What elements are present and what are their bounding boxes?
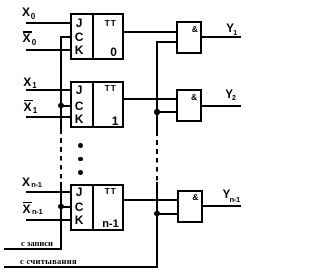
pin C of TTn-1 xyxy=(75,201,84,213)
wire write vertical middle (dashed) xyxy=(60,134,62,182)
ellipsis dot 1 xyxy=(78,143,83,148)
junction dot write/Cn-1 xyxy=(58,204,63,209)
wire read horizontal xyxy=(4,266,158,268)
wire AND3 input2 stub xyxy=(156,213,177,215)
wire TT0 output xyxy=(124,31,177,33)
label TT of TT1 xyxy=(105,84,117,93)
wire TT1 output xyxy=(124,98,177,100)
flip-flop TTn-1 divider xyxy=(92,184,94,231)
wire C0 stub xyxy=(60,36,70,38)
AND gate U3 box xyxy=(177,190,203,223)
label TT of TT0 xyxy=(105,19,117,28)
wire X0-bar input xyxy=(26,49,70,51)
node Y2 label xyxy=(225,90,233,102)
pin J of TT0 xyxy=(76,17,83,29)
wire Y1 output xyxy=(202,36,241,38)
label read signal xyxy=(20,257,77,266)
AND gate U2 box xyxy=(176,89,202,122)
label & of U1 xyxy=(192,25,198,34)
wire TTn-1 output xyxy=(124,199,178,201)
wire Y2 output xyxy=(202,105,241,107)
wire write vertical upper (solid) xyxy=(60,36,62,135)
wire Xn-1-bar input xyxy=(26,219,70,221)
wire X1-bar input xyxy=(26,116,70,118)
pin J of TT1 xyxy=(76,84,83,96)
wire read vertical middle (dashed) xyxy=(156,136,158,182)
flip-flop TT0 box xyxy=(70,13,124,60)
wire AND1 input2 stub xyxy=(156,41,176,43)
node Xn-1 label xyxy=(22,176,30,188)
label n-1 of TTn-1 xyxy=(102,219,119,230)
pin C of TT0 xyxy=(75,31,84,43)
node X0-bar label xyxy=(23,31,32,33)
pin K of TT1 xyxy=(75,113,84,125)
wire X1 input xyxy=(26,89,70,91)
ellipsis dot 2 xyxy=(78,157,83,162)
label & of U3 xyxy=(192,193,198,202)
wire read vertical upper (solid) xyxy=(156,41,158,136)
node X1-bar label xyxy=(24,100,33,102)
node Yn-1 label xyxy=(223,190,231,202)
junction dot read/AND3 xyxy=(154,211,159,216)
pin K of TTn-1 xyxy=(75,214,84,226)
wire X0 input xyxy=(26,22,70,24)
wire write vertical lower (solid) xyxy=(60,182,62,250)
pin J of TTn-1 xyxy=(76,186,83,198)
wire C1 stub xyxy=(60,105,70,107)
wire write horizontal xyxy=(4,248,62,250)
wire Yn-1 output xyxy=(203,205,241,207)
AND gate U1 box xyxy=(176,21,202,54)
wire read vertical lower (solid) xyxy=(156,182,158,268)
flip-flop TTn-1 box xyxy=(70,184,124,231)
label 0 of TT0 xyxy=(110,46,117,58)
label write signal xyxy=(21,239,53,248)
label TT of TTn-1 xyxy=(105,187,117,196)
flip-flop TT1 box xyxy=(70,81,124,128)
label & of U2 xyxy=(191,93,197,102)
wire AND2 input2 stub xyxy=(156,111,176,113)
node Xn-1-bar label xyxy=(23,202,32,204)
node X1 label xyxy=(23,76,31,88)
wire Xn-1 input xyxy=(26,191,70,193)
pin C of TT1 xyxy=(75,100,84,112)
junction dot write/C1 xyxy=(58,103,63,108)
flip-flop TT0 divider xyxy=(92,13,94,60)
junction dot read/AND2 xyxy=(154,109,159,114)
pin K of TT0 xyxy=(75,44,84,56)
node X0 label xyxy=(22,6,30,18)
ellipsis dot 3 xyxy=(78,170,83,175)
wire Cn-1 stub xyxy=(60,206,70,208)
node Y1 label xyxy=(226,24,234,36)
label 1 of TT1 xyxy=(112,115,119,127)
flip-flop TT1 divider xyxy=(92,81,94,128)
